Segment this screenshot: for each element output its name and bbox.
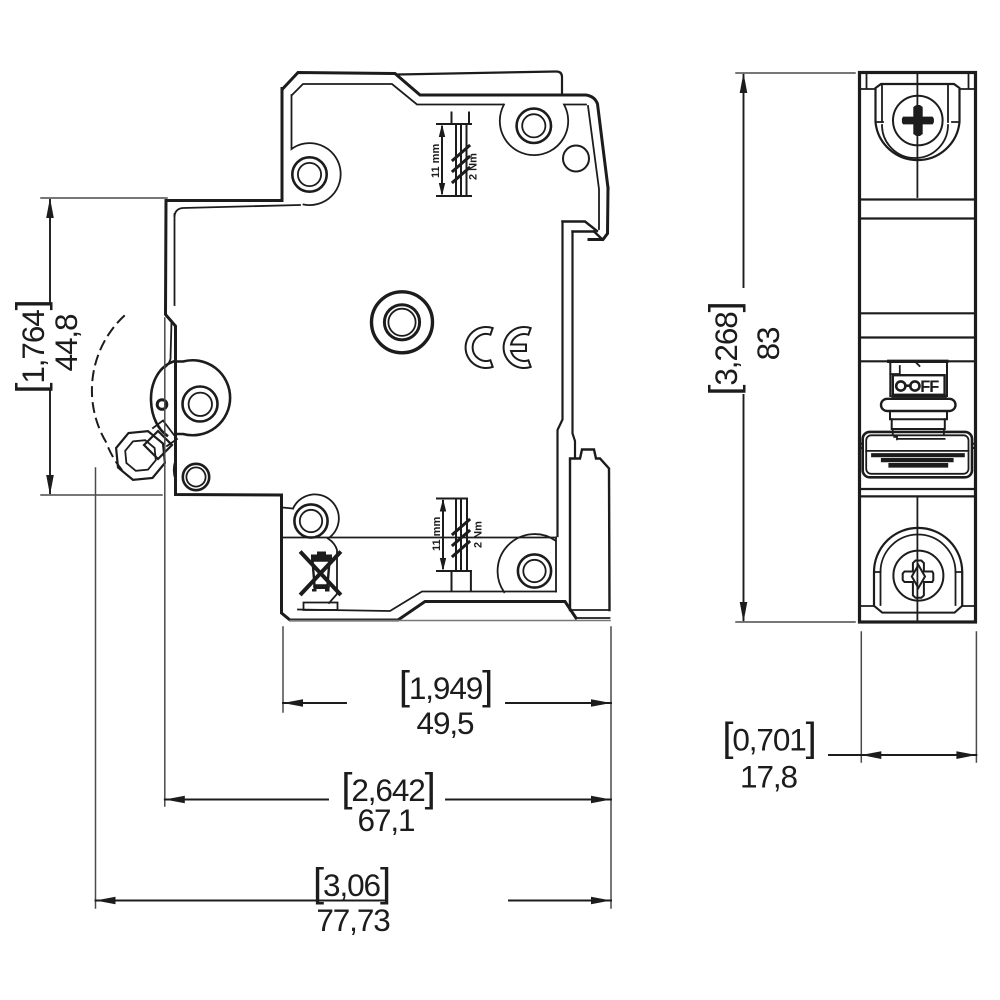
side view: bottom-left mounting hole inner bbox=[300, 510, 322, 532]
side view: boss arc bottom-left hole bbox=[293, 494, 339, 603]
side view: top-left mounting hole inner bbox=[298, 163, 321, 186]
extension line 17.8 right bbox=[975, 632, 977, 762]
front view: housing step notch bbox=[890, 363, 919, 374]
front view: horizontal lines label field bbox=[860, 313, 976, 337]
front view: OFF plate indicator ring 1 bbox=[896, 381, 905, 390]
extension line 17.8 left bbox=[860, 632, 862, 762]
svg-text:[3,06]: [3,06] bbox=[313, 861, 390, 905]
dashed swing arc bbox=[92, 316, 124, 470]
latch knob inner octagon bbox=[125, 440, 156, 471]
side view: label slot rectangle bbox=[304, 603, 338, 611]
side view: bottom-right mounting hole inner bbox=[523, 560, 545, 582]
extension line 44.8 bottom bbox=[41, 494, 162, 496]
side view: bottom-left mounting hole outer bbox=[294, 504, 327, 537]
front view: OFF plate bbox=[893, 375, 945, 395]
latch arm bbox=[153, 421, 177, 447]
front view: center line bottom bbox=[916, 496, 918, 622]
front view: top screw recess outer bbox=[876, 84, 960, 160]
front view: bottom corner stubs bbox=[860, 605, 976, 607]
svg-text:2 Nm: 2 Nm bbox=[468, 153, 480, 180]
svg-text:17,8: 17,8 bbox=[740, 759, 797, 795]
svg-text:11 mm: 11 mm bbox=[431, 517, 443, 551]
side view: top-left mounting hole outer bbox=[292, 157, 326, 191]
mounting plane line bbox=[290, 620, 610, 622]
side view: rail plane double line left bbox=[558, 222, 563, 537]
side view: rail plane double line right bbox=[573, 232, 576, 458]
side view: cam inner edge bbox=[165, 321, 172, 368]
torque annotation bottom: lower line bbox=[437, 570, 471, 572]
side view: top-right small circle bbox=[563, 146, 589, 172]
side view: boss arc around top-right hole bbox=[500, 105, 586, 156]
extension line 49.5 left bbox=[282, 627, 284, 712]
front view: bottom screw phillips cross outline bbox=[903, 561, 934, 598]
front view: OFF plate link bar bbox=[905, 384, 910, 387]
front view: clamp bar 2 bbox=[883, 458, 952, 462]
side view: top-right mounting hole outer bbox=[517, 109, 551, 143]
front view: bottom screw recess outer dome bbox=[874, 528, 962, 606]
front view: toggle flange pill bbox=[881, 399, 956, 411]
front view: top screw recess inner arc bbox=[882, 125, 948, 158]
side view: WEEE panel step bbox=[283, 508, 294, 509]
side view: small pin dot bbox=[157, 400, 167, 410]
side view: inner bottom contour bbox=[298, 592, 556, 612]
torque annotation bottom: opening ticks bbox=[452, 571, 471, 590]
side view: central boss circle outer bbox=[372, 292, 433, 353]
front view: plate bottom shadow bbox=[893, 395, 946, 398]
CE mark letter E bbox=[504, 327, 531, 368]
side view: pivot lobe boss bbox=[176, 360, 230, 435]
svg-text:49,5: 49,5 bbox=[417, 705, 474, 741]
side view: top-right mounting hole inner bbox=[522, 114, 545, 137]
dimension line 77.73 bbox=[96, 900, 612, 902]
svg-text:11 mm: 11 mm bbox=[430, 144, 442, 178]
side view: bottom-right boss arc bbox=[498, 534, 556, 592]
front view: terminal block inner bbox=[866, 435, 968, 474]
torque annotation top: lower line bbox=[437, 195, 471, 197]
side view: central boss circle inner bbox=[388, 309, 415, 336]
side view: inner left vertical and boss arc top-left hole bbox=[292, 95, 341, 205]
latch knob stub square bbox=[144, 431, 172, 459]
side view: lower-left small hole inner bbox=[186, 467, 205, 486]
CE mark letter C bbox=[466, 327, 493, 368]
svg-text:FF: FF bbox=[920, 378, 939, 396]
svg-text:83: 83 bbox=[750, 327, 786, 360]
extension line 83 top bbox=[736, 72, 855, 74]
torque annotation top: opening ticks bbox=[452, 113, 470, 125]
side view: latch cam bulge bbox=[151, 361, 175, 436]
front view: phillips center diamond bbox=[912, 565, 925, 588]
side view: inner contour top bbox=[292, 84, 504, 105]
side view: shelf right vertical bbox=[555, 538, 557, 592]
side view: pivot hole outer bbox=[183, 387, 218, 422]
extension line right x=611 bbox=[610, 627, 612, 908]
extension line 44.8 top bbox=[41, 197, 167, 199]
front view: bottom recess base bbox=[874, 606, 962, 613]
front view: bottom screw recess inner arc bbox=[881, 535, 956, 573]
torque annotation top: dimension line 11mm bbox=[441, 127, 443, 193]
side view: claw diagonal inner bbox=[594, 232, 603, 240]
front view: toggle neck section1 bbox=[890, 411, 947, 419]
side view: pivot hole inner bbox=[189, 393, 212, 416]
dimension line 17.8 with leader bbox=[829, 754, 976, 756]
front view: top screw phillips cross bbox=[902, 105, 934, 136]
torque annotation bottom: upper line bbox=[437, 498, 467, 500]
front view: clamp bar 3 bbox=[891, 463, 946, 468]
side view: claw upper ledge bbox=[563, 222, 598, 232]
dimension line 44.8 bbox=[49, 200, 51, 493]
svg-text:[1,764]: [1,764] bbox=[9, 300, 53, 393]
side view: central boss circle mid bbox=[384, 305, 419, 340]
front view: horizontal lines below block bbox=[860, 489, 976, 496]
side view: small hole boss arcs bbox=[174, 460, 176, 480]
torque annotation bottom: hatch strokes bbox=[453, 520, 469, 556]
extension line 67.1 left bbox=[164, 318, 166, 806]
side view: lip left inner edge bbox=[399, 77, 419, 94]
dimension line 49.5 bbox=[283, 702, 611, 704]
front view: clamp bar 1 bbox=[873, 453, 963, 457]
front view: block side tabs bbox=[860, 444, 976, 448]
svg-text:2 Nm: 2 Nm bbox=[473, 521, 485, 548]
front view: center line top bbox=[916, 73, 918, 198]
torque annotation bottom: screw shaft lines bbox=[456, 499, 467, 572]
front view: top corner details bbox=[860, 73, 976, 90]
front view: terminal block outer bbox=[863, 432, 972, 477]
side view: inner diagonal right bbox=[588, 106, 599, 229]
side view: lower-left small hole outer bbox=[183, 464, 209, 490]
torque annotation bottom: dimension line 11mm bbox=[442, 501, 444, 568]
side view: left edge upper x=282 bbox=[166, 89, 283, 437]
svg-text:67,1: 67,1 bbox=[358, 802, 415, 838]
front view: top screw head bbox=[893, 96, 943, 146]
svg-text:[0,701]: [0,701] bbox=[722, 716, 815, 760]
torque annotation top: screw shaft lines bbox=[456, 124, 467, 196]
side view: DIN clip foot bbox=[570, 450, 610, 611]
torque annotation top: upper line bbox=[437, 123, 471, 125]
side view: top lip bbox=[398, 72, 562, 94]
front view: body rectangle bbox=[860, 73, 976, 623]
side view: foot base band bbox=[570, 610, 610, 618]
front view: toggle neck section3 bbox=[893, 429, 945, 439]
front view: bottom screw head bbox=[893, 551, 943, 601]
front view: toggle neck section2 bbox=[892, 419, 945, 429]
side view: inner left vertical 2 bbox=[174, 214, 176, 305]
extension line 83 bottom bbox=[736, 621, 855, 623]
svg-text:[3,268]: [3,268] bbox=[702, 302, 746, 395]
WEEE symbol: X cross bbox=[302, 553, 340, 594]
side view: shelf line bbox=[283, 537, 557, 539]
side view: inner ledge y=208 bbox=[175, 205, 301, 216]
svg-text:77,73: 77,73 bbox=[316, 902, 390, 938]
front view: horizontal lines upper bbox=[860, 200, 976, 219]
side view: left edge small-hole section bbox=[176, 436, 577, 620]
svg-text:[1,949]: [1,949] bbox=[399, 664, 492, 708]
side view: outer outline top bbox=[283, 73, 608, 189]
dimension line 67.1 bbox=[165, 799, 611, 801]
dimension line 83 bbox=[743, 75, 745, 620]
front view: OFF plate indicator ring 2 bbox=[910, 381, 919, 390]
front view: toggle housing side walls bbox=[890, 361, 947, 396]
svg-text:44,8: 44,8 bbox=[48, 314, 84, 371]
WEEE symbol: crossed-out wheelie bin bbox=[317, 552, 326, 556]
side view: bottom-right mounting hole outer bbox=[518, 554, 551, 587]
extension line 77.73 left bbox=[95, 468, 97, 908]
front view: terminal block divider bbox=[866, 450, 968, 452]
torque annotation top: hatch strokes bbox=[453, 146, 469, 182]
side view: claw mid ledge bbox=[573, 230, 595, 232]
front view: toggle housing top line bbox=[860, 360, 976, 362]
side view: right edge vertical to claw bbox=[589, 188, 608, 240]
latch knob outer octagon bbox=[116, 431, 165, 480]
